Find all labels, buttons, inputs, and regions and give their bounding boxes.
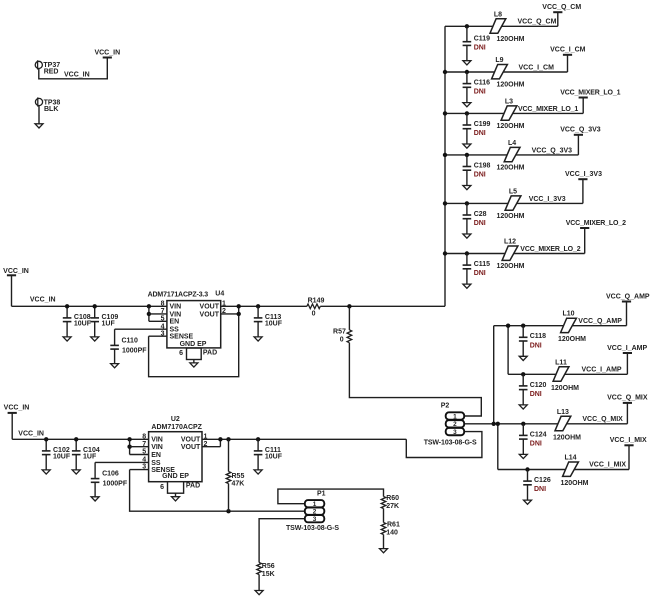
svg-text:10UF: 10UF <box>74 320 92 327</box>
svg-text:GND EP: GND EP <box>180 341 207 348</box>
svg-text:C119: C119 <box>474 36 490 43</box>
svg-text:L11: L11 <box>555 359 567 366</box>
svg-text:R149: R149 <box>308 297 325 304</box>
svg-text:VCC_IN: VCC_IN <box>18 430 44 437</box>
svg-text:C115: C115 <box>474 261 490 268</box>
svg-text:C120: C120 <box>530 382 547 389</box>
svg-text:ADM7170ACPZ: ADM7170ACPZ <box>151 424 202 431</box>
svg-text:L3: L3 <box>505 98 513 105</box>
svg-text:SENSE: SENSE <box>170 334 194 341</box>
svg-text:VCC_I_MIX: VCC_I_MIX <box>589 462 626 469</box>
svg-text:VCC_I_AMP: VCC_I_AMP <box>607 345 647 352</box>
svg-text:VCC_IN: VCC_IN <box>3 268 29 275</box>
svg-text:10UF: 10UF <box>265 453 283 460</box>
svg-text:VCC_MIXER_LO_1: VCC_MIXER_LO_1 <box>560 89 620 96</box>
svg-text:120OHM: 120OHM <box>553 434 581 441</box>
svg-text:VCC_MIXER_LO_2: VCC_MIXER_LO_2 <box>566 220 626 227</box>
svg-text:EN: EN <box>151 452 161 459</box>
svg-text:VCC_Q_AMP: VCC_Q_AMP <box>606 293 650 300</box>
svg-text:SS: SS <box>151 460 161 467</box>
svg-text:C116: C116 <box>474 80 490 87</box>
svg-text:ADM7171ACPZ-3.3: ADM7171ACPZ-3.3 <box>148 291 209 298</box>
svg-text:L4: L4 <box>508 140 516 147</box>
svg-text:L14: L14 <box>564 455 576 462</box>
svg-text:GND EP: GND EP <box>162 473 189 480</box>
svg-text:4: 4 <box>142 457 146 464</box>
svg-text:140: 140 <box>386 530 398 537</box>
svg-text:VCC_Q_CM: VCC_Q_CM <box>518 19 557 26</box>
svg-text:5: 5 <box>142 449 146 456</box>
svg-text:120OHM: 120OHM <box>497 213 525 220</box>
svg-text:120OHM: 120OHM <box>497 164 525 171</box>
svg-text:5: 5 <box>161 315 165 322</box>
svg-text:VOUT: VOUT <box>181 437 201 444</box>
svg-text:8: 8 <box>142 433 146 440</box>
svg-text:10UF: 10UF <box>265 320 283 327</box>
svg-text:1000PF: 1000PF <box>122 347 147 354</box>
svg-text:BLK: BLK <box>44 106 58 113</box>
svg-text:VCC_I_CM: VCC_I_CM <box>519 64 555 71</box>
svg-text:10UF: 10UF <box>53 453 71 460</box>
svg-text:L10: L10 <box>562 311 574 318</box>
svg-text:VIN: VIN <box>170 304 182 311</box>
svg-text:L13: L13 <box>557 409 569 416</box>
svg-text:C126: C126 <box>534 477 551 484</box>
svg-text:DNI: DNI <box>530 342 542 349</box>
svg-text:EN: EN <box>170 319 180 326</box>
svg-text:DNI: DNI <box>530 441 542 448</box>
svg-text:SS: SS <box>170 327 180 334</box>
svg-text:L8: L8 <box>494 11 502 18</box>
svg-text:R61: R61 <box>387 521 400 528</box>
svg-text:C198: C198 <box>474 162 491 169</box>
svg-text:R56: R56 <box>262 563 275 570</box>
svg-text:VOUT: VOUT <box>181 444 201 451</box>
svg-text:VIN: VIN <box>151 437 163 444</box>
svg-text:C106: C106 <box>102 471 119 478</box>
svg-text:C28: C28 <box>474 211 487 218</box>
svg-text:VCC_Q_CM: VCC_Q_CM <box>542 4 581 11</box>
svg-text:27K: 27K <box>386 503 399 510</box>
svg-text:120OHM: 120OHM <box>561 480 589 487</box>
svg-text:U4: U4 <box>215 291 224 298</box>
svg-text:7: 7 <box>161 308 165 315</box>
svg-text:R57: R57 <box>333 329 346 336</box>
svg-text:DNI: DNI <box>474 172 486 179</box>
svg-text:3: 3 <box>142 464 146 471</box>
svg-text:1UF: 1UF <box>83 453 97 460</box>
svg-text:VCC_IN: VCC_IN <box>94 49 120 56</box>
svg-text:2: 2 <box>204 441 208 448</box>
svg-text:3: 3 <box>453 429 457 436</box>
svg-text:PAD: PAD <box>203 350 217 357</box>
svg-text:DNI: DNI <box>474 130 486 137</box>
svg-text:0: 0 <box>312 311 316 318</box>
svg-text:C124: C124 <box>530 431 547 438</box>
svg-text:VCC_I_MIX: VCC_I_MIX <box>610 437 647 444</box>
svg-text:RED: RED <box>44 69 59 76</box>
svg-text:DNI: DNI <box>474 45 486 52</box>
svg-text:1: 1 <box>222 300 226 307</box>
svg-text:TSW-103-08-G-S: TSW-103-08-G-S <box>424 440 477 447</box>
svg-text:DNI: DNI <box>474 220 486 227</box>
svg-text:P2: P2 <box>441 402 450 409</box>
svg-text:VCC_I_CM: VCC_I_CM <box>550 47 586 54</box>
svg-text:VOUT: VOUT <box>200 311 220 318</box>
svg-text:PAD: PAD <box>186 482 200 489</box>
svg-text:VCC_Q_3V3: VCC_Q_3V3 <box>532 147 573 154</box>
svg-text:VCC_IN: VCC_IN <box>64 71 90 78</box>
svg-text:VCC_Q_MIX: VCC_Q_MIX <box>607 395 648 402</box>
svg-text:P1: P1 <box>317 490 326 497</box>
svg-text:C110: C110 <box>122 337 138 344</box>
svg-text:VCC_Q_AMP: VCC_Q_AMP <box>578 318 622 325</box>
svg-text:TSW-103-08-G-S: TSW-103-08-G-S <box>286 525 339 532</box>
svg-text:L12: L12 <box>504 239 516 246</box>
svg-text:1000PF: 1000PF <box>103 481 128 488</box>
svg-text:120OHM: 120OHM <box>497 36 525 43</box>
svg-text:L5: L5 <box>509 188 517 195</box>
svg-text:VIN: VIN <box>151 444 163 451</box>
svg-text:8: 8 <box>161 300 165 307</box>
svg-text:120OHM: 120OHM <box>497 82 525 89</box>
svg-text:R55: R55 <box>232 473 245 480</box>
svg-text:47K: 47K <box>232 481 245 488</box>
svg-text:VCC_Q_MIX: VCC_Q_MIX <box>582 416 623 423</box>
svg-text:VOUT: VOUT <box>200 304 220 311</box>
svg-text:3: 3 <box>313 516 317 523</box>
svg-text:DNI: DNI <box>474 270 486 277</box>
svg-text:4: 4 <box>161 323 165 330</box>
svg-text:C118: C118 <box>530 333 546 340</box>
svg-text:6: 6 <box>179 350 183 357</box>
svg-text:L9: L9 <box>495 57 503 64</box>
svg-text:120OHM: 120OHM <box>497 123 525 130</box>
svg-text:VCC_IN: VCC_IN <box>4 405 30 412</box>
svg-text:R60: R60 <box>386 495 399 502</box>
svg-text:DNI: DNI <box>534 486 546 493</box>
svg-text:VCC_MIXER_LO_1: VCC_MIXER_LO_1 <box>518 106 578 113</box>
svg-text:DNI: DNI <box>474 89 486 96</box>
svg-text:120OHM: 120OHM <box>558 336 586 343</box>
svg-text:VCC_IN: VCC_IN <box>30 297 56 304</box>
svg-text:7: 7 <box>142 441 146 448</box>
svg-text:120OHM: 120OHM <box>551 385 579 392</box>
svg-text:120OHM: 120OHM <box>497 263 525 270</box>
svg-text:15K: 15K <box>262 571 275 578</box>
svg-text:1UF: 1UF <box>102 320 116 327</box>
svg-text:VCC_MIXER_LO_2: VCC_MIXER_LO_2 <box>520 246 580 253</box>
svg-text:1: 1 <box>204 433 208 440</box>
svg-text:2: 2 <box>222 308 226 315</box>
svg-text:C199: C199 <box>474 121 491 128</box>
svg-text:DNI: DNI <box>530 391 542 398</box>
svg-text:3: 3 <box>161 330 165 337</box>
svg-text:U2: U2 <box>171 416 180 423</box>
svg-text:VCC_I_3V3: VCC_I_3V3 <box>565 171 602 178</box>
svg-text:6: 6 <box>160 484 164 491</box>
svg-text:VCC_I_3V3: VCC_I_3V3 <box>529 196 566 203</box>
svg-text:VCC_I_AMP: VCC_I_AMP <box>582 367 622 374</box>
svg-text:0: 0 <box>340 337 344 344</box>
svg-text:VIN: VIN <box>170 311 182 318</box>
svg-text:VCC_Q_3V3: VCC_Q_3V3 <box>560 127 601 134</box>
